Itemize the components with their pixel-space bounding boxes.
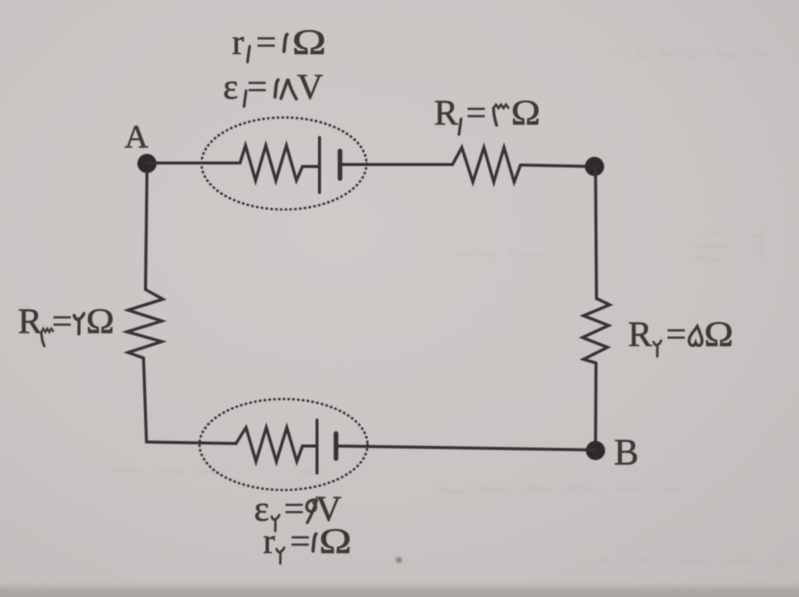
svg-text:=: = (666, 314, 686, 354)
internal resistance r2 zigzag (236, 428, 317, 462)
svg-text:=: = (256, 22, 276, 62)
wire bottom-left corner up to resistor R3 (144, 358, 147, 442)
wire battery 1 to resistor R1 (340, 163, 453, 166)
battery ε2 dotted ellipse (200, 399, 368, 490)
battery ε1 plates (318, 138, 321, 193)
resistor R1 (453, 148, 521, 183)
internal resistance r1 zigzag (240, 146, 319, 181)
label ε2 = 6 V (254, 489, 342, 532)
label r2 = 1 ohm (263, 521, 352, 564)
resistor R3 (127, 290, 163, 359)
svg-text:Ω: Ω (319, 521, 352, 561)
label r1 = 1 ohm (232, 22, 326, 62)
svg-text:R: R (434, 93, 458, 133)
stray ink dot (396, 557, 401, 562)
wire node A to battery 1 (147, 162, 240, 165)
svg-text:=: = (290, 521, 310, 561)
label R2 = 5 ohm (628, 314, 733, 357)
top-right junction node (585, 157, 604, 176)
resistor R2 (583, 299, 610, 364)
battery ε1 dotted ellipse (202, 118, 367, 210)
wire junction to resistor R2 (596, 167, 597, 299)
label R3 = 2 ohm (18, 301, 114, 346)
svg-text:=: = (52, 301, 72, 341)
svg-text:Ω: Ω (511, 93, 540, 133)
wire R3 to node A (146, 172, 148, 290)
node B (586, 433, 639, 474)
svg-text:V: V (297, 67, 323, 107)
node A (125, 120, 157, 174)
wire node B to battery 2 (336, 446, 596, 450)
battery ε2 plates (334, 434, 339, 459)
svg-text:r: r (232, 22, 244, 62)
svg-text:r: r (263, 521, 275, 561)
svg-text:=: = (247, 67, 267, 107)
wire R2 to node B (594, 363, 598, 450)
label R1 = 3 ohm (434, 93, 540, 135)
svg-text:Ω: Ω (704, 315, 733, 355)
svg-text:Ω: Ω (292, 22, 326, 62)
wire battery 2 to bottom-left corner (147, 442, 237, 444)
svg-text:B: B (614, 433, 639, 474)
svg-text:Ω: Ω (86, 302, 114, 342)
svg-text:R: R (628, 314, 652, 354)
label ε1 = 18 V (223, 67, 323, 107)
svg-text:R: R (18, 301, 42, 341)
svg-text:=: = (466, 93, 486, 133)
svg-text:A: A (125, 120, 149, 156)
wire R1 to top-right junction (521, 165, 595, 167)
svg-text:ε: ε (223, 67, 238, 107)
